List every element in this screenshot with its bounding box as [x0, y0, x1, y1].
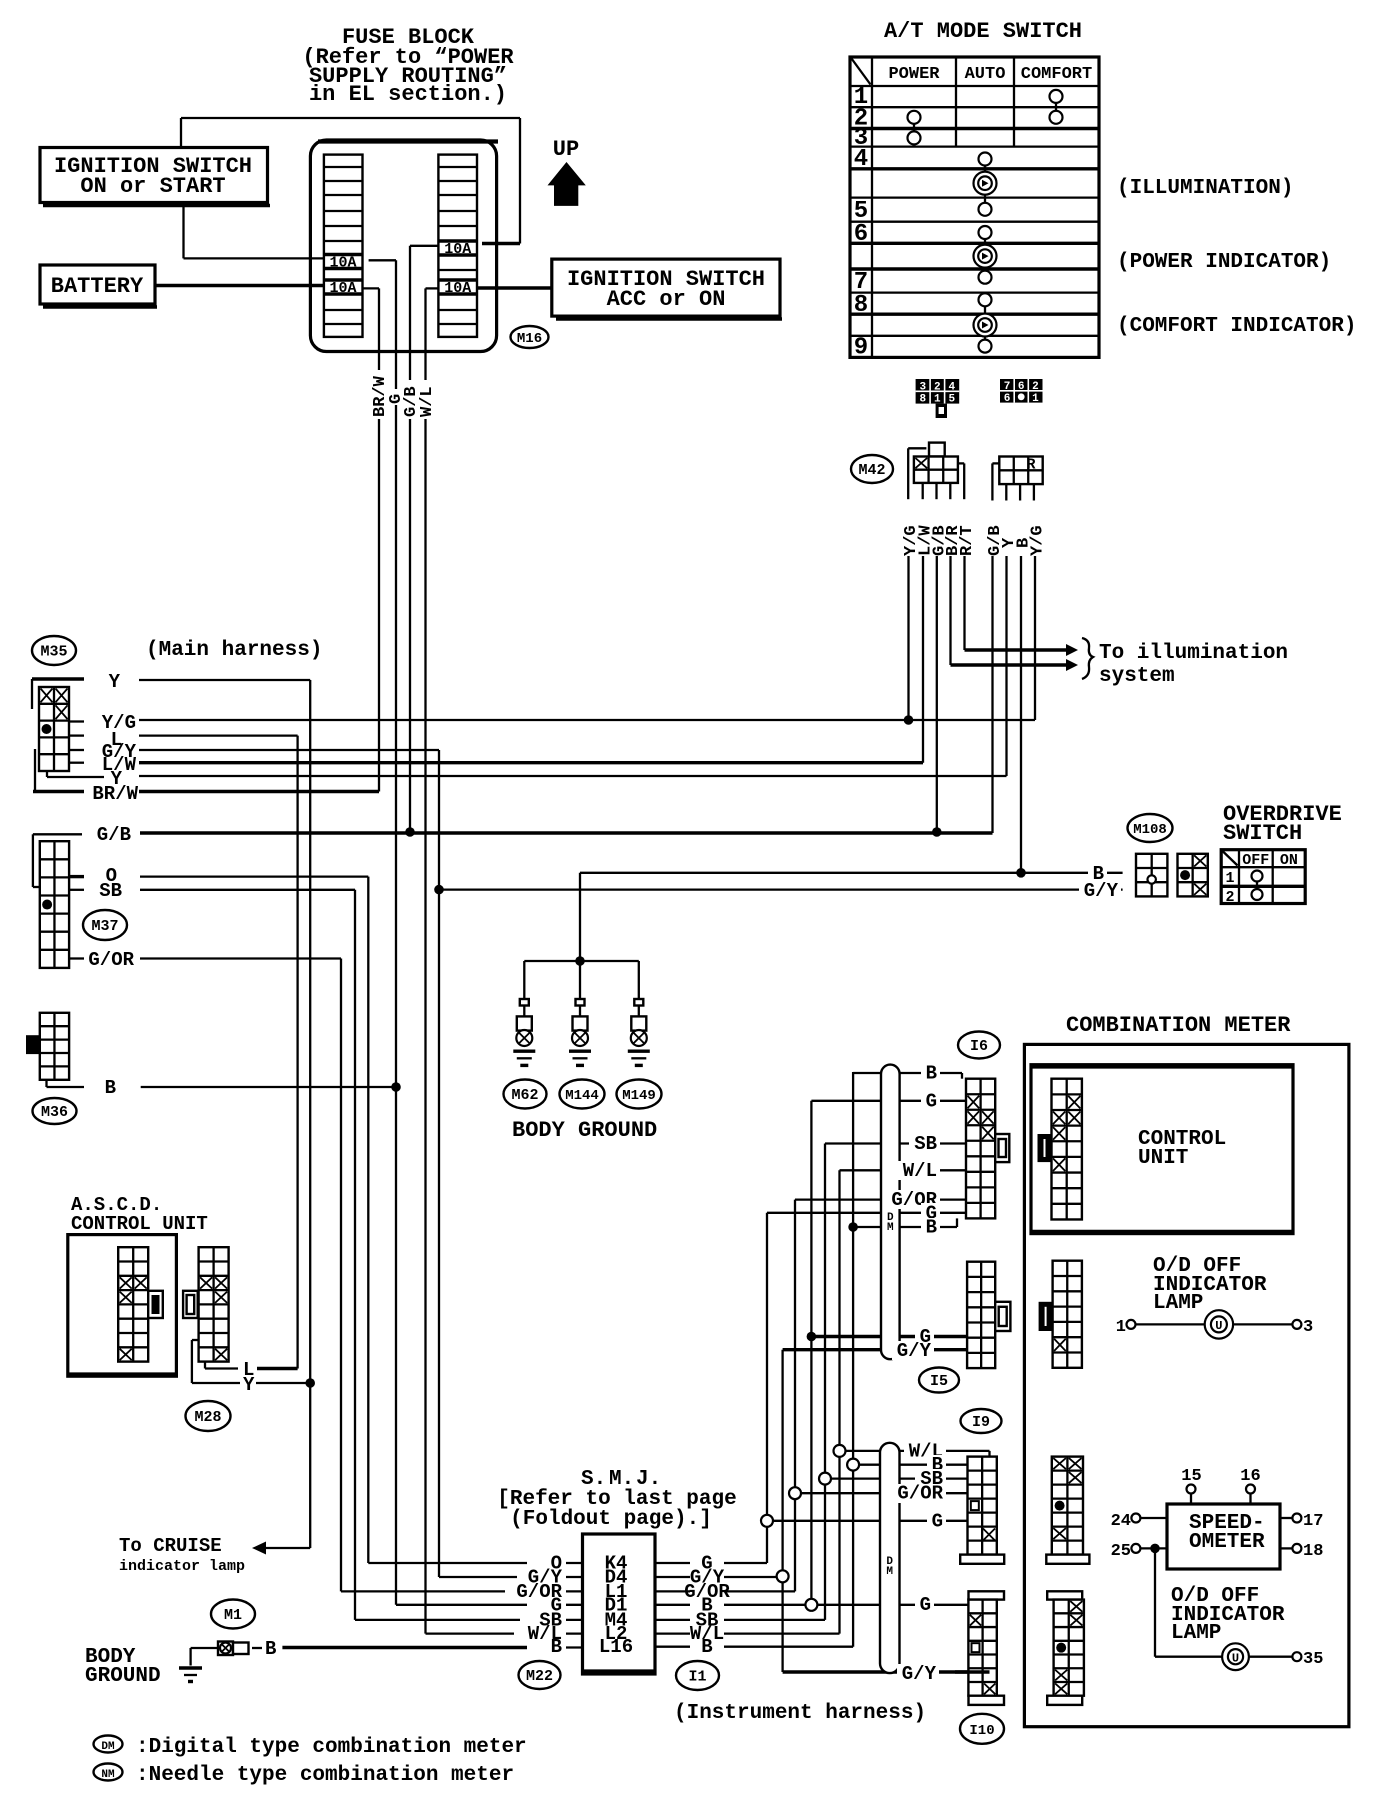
svg-text:M: M	[886, 1566, 893, 1578]
svg-text:(COMFORT INDICATOR): (COMFORT INDICATOR)	[1117, 315, 1356, 338]
connector M42 grid A	[908, 448, 964, 499]
M108 connector grid A	[1136, 854, 1167, 897]
svg-text:4: 4	[948, 381, 955, 393]
S.M.J. terminal labels	[599, 1553, 633, 1659]
wire G/Y: M35 row down to M108 and SMJ D4	[139, 750, 444, 1577]
wire B: I9 row	[853, 1463, 967, 1465]
wire O: M37 to SMJ K4	[140, 877, 368, 1563]
wire G: fuse down to SMJ D1 row	[369, 260, 396, 1605]
wire B/R: A/T connector to illumination	[951, 556, 1067, 665]
table row numbers	[854, 84, 868, 362]
speedometer box	[1167, 1504, 1280, 1569]
svg-text:G/Y: G/Y	[897, 1340, 932, 1362]
BATTERY box	[40, 265, 157, 307]
M1 body ground connector	[179, 1642, 249, 1682]
wire G: I6 row	[811, 1100, 966, 1102]
svg-text:1: 1	[1225, 870, 1234, 887]
(Main harness) label	[146, 639, 322, 662]
svg-text:To illumination: To illumination	[1099, 642, 1288, 665]
svg-text:M108: M108	[1133, 822, 1167, 838]
speedometer pins 15 16	[1181, 1467, 1260, 1504]
svg-text:3: 3	[919, 381, 926, 393]
To illumination system label	[1099, 642, 1288, 688]
svg-text:OMETER: OMETER	[1189, 1531, 1265, 1554]
A/T mode switch table	[850, 57, 1099, 357]
wire L/W: M35 row to A/T connector	[139, 556, 923, 763]
wire SB: M37 to SMJ M4	[140, 890, 355, 1620]
wire: battery feed to left fuse 10A	[155, 284, 324, 287]
svg-text:B: B	[265, 1638, 276, 1660]
svg-text:2: 2	[1032, 381, 1039, 393]
svg-text:6: 6	[854, 221, 868, 248]
wire L: M35 row to ASCD M28	[139, 736, 298, 1369]
svg-text:2: 2	[934, 381, 941, 393]
fuse block right column	[438, 155, 477, 337]
svg-text:(Instrument harness): (Instrument harness)	[674, 1702, 926, 1725]
svg-text:7: 7	[1004, 381, 1011, 393]
wire BR/W: battery fuse down to M35 BR/W row	[363, 288, 380, 791]
connector M37	[33, 834, 84, 968]
wire G/Y vertical to I5 and I10	[783, 1350, 990, 1672]
wire: right fuse 10A to ignition switch ACC box	[475, 286, 552, 289]
connector M35 oval	[32, 636, 76, 665]
svg-text:UNIT: UNIT	[1138, 1147, 1188, 1170]
svg-text:G/OR: G/OR	[897, 1483, 943, 1505]
svg-text::Digital type combination mete: :Digital type combination meter	[136, 1736, 527, 1759]
legend NM	[94, 1764, 515, 1788]
connector M42 oval	[851, 455, 893, 483]
A/T switch pigtail connector right (black)	[1000, 379, 1043, 405]
S.M.J. caption	[497, 1468, 736, 1531]
wire: SMJ row D1 right (B) to I10 G row	[655, 1101, 968, 1605]
connector M37 oval	[83, 910, 127, 940]
svg-text:4: 4	[854, 146, 868, 173]
svg-text:GROUND: GROUND	[85, 1665, 161, 1688]
svg-text:8: 8	[919, 394, 926, 406]
svg-text:M16: M16	[517, 331, 542, 347]
svg-text:(POWER INDICATOR): (POWER INDICATOR)	[1117, 251, 1331, 274]
A/T switch pigtail connector left (black)	[916, 379, 960, 418]
svg-text:I9: I9	[972, 1414, 990, 1431]
combination meter box	[1024, 1044, 1349, 1726]
wire B: I6 top row	[853, 1073, 962, 1079]
svg-text:6: 6	[1004, 393, 1011, 405]
wire G/OR: M37 to SMJ L1	[140, 959, 341, 1592]
wire BR/W row: M35 bottom row	[139, 790, 379, 793]
I6 wire labels	[886, 1063, 940, 1239]
FUSE BLOCK caption	[302, 25, 514, 107]
CM connector at I10	[1047, 1591, 1084, 1705]
A.S.C.D. control unit box	[68, 1235, 178, 1377]
connector M36 oval	[33, 1098, 77, 1124]
junction circle G/OR	[789, 1487, 801, 1499]
svg-text:LAMP: LAMP	[1171, 1622, 1221, 1645]
S.M.J. right wire labels	[684, 1553, 730, 1659]
ground oval M62	[504, 1080, 547, 1109]
wire B: I6 bottom row	[853, 1218, 957, 1227]
M28 wire labels L and Y	[243, 1359, 255, 1396]
wire B: body ground bus to M108	[580, 556, 1123, 961]
M108 connector grid B	[1178, 854, 1208, 897]
connector M42 grid B	[992, 457, 1042, 501]
wire: M28 L to L vertical	[205, 1362, 298, 1369]
wire G/B: fuse down to G/B row	[410, 246, 438, 832]
fuse 10A labels	[329, 241, 471, 297]
combination meter control-unit connector	[1038, 1079, 1082, 1220]
B and G/Y labels at M108	[1079, 863, 1121, 902]
wire G/OR: I6 row	[795, 1198, 966, 1200]
svg-text:POWER: POWER	[888, 65, 940, 84]
svg-text:17: 17	[1303, 1512, 1323, 1531]
COMBINATION METER title	[1066, 1013, 1291, 1038]
svg-text:M28: M28	[194, 1409, 221, 1426]
label (POWER INDICATOR)	[1117, 251, 1331, 274]
svg-text:indicator lamp: indicator lamp	[119, 1558, 245, 1575]
wire: SMJ row L1 left (G/OR)	[341, 1590, 583, 1592]
connector I5	[967, 1262, 1010, 1368]
svg-text:10A: 10A	[444, 280, 471, 297]
connector I9 oval	[961, 1409, 1002, 1433]
svg-text:M42: M42	[858, 462, 885, 479]
O/D OFF indicator lamp (upper)	[1116, 1310, 1313, 1338]
M42 keying box	[929, 443, 945, 468]
svg-text::Needle type combination meter: :Needle type combination meter	[136, 1764, 514, 1787]
svg-text:5: 5	[948, 394, 955, 406]
svg-text:G: G	[932, 1510, 943, 1532]
svg-text:OFF: OFF	[1242, 852, 1269, 869]
svg-text:M1: M1	[224, 1607, 242, 1624]
speedometer pin 18	[1280, 1542, 1323, 1561]
speedometer pin 25 and lamp feed	[1111, 1542, 1222, 1657]
svg-text:G/Y: G/Y	[1084, 880, 1119, 902]
body ground M62	[513, 999, 535, 1065]
wire: SMJ row L2 right (W/L) to I6/I9	[655, 1170, 990, 1633]
wire labels BR/W G G/B W/L below fuse block	[371, 370, 437, 419]
svg-text:UP: UP	[553, 137, 579, 162]
svg-text:in EL section.): in EL section.)	[309, 82, 507, 107]
svg-text:3: 3	[1303, 1318, 1313, 1337]
svg-text:G/OR: G/OR	[88, 949, 134, 971]
wire B: M36 to G vertical junction	[141, 1082, 401, 1092]
wire W/L: fuse down to SMJ L2 row	[426, 288, 439, 1633]
svg-text:B: B	[926, 1063, 937, 1085]
svg-text:Y: Y	[109, 671, 121, 693]
connector I6	[966, 1079, 1009, 1219]
wire G: I6 lower row	[767, 1212, 966, 1214]
svg-text:ACC or ON: ACC or ON	[607, 287, 726, 312]
wire B: M1 body ground to SMJ L16	[252, 1646, 583, 1649]
junction circle B	[847, 1459, 859, 1471]
svg-text:M144: M144	[565, 1088, 599, 1104]
O/D OFF indicator lamp (lower)	[1222, 1643, 1323, 1670]
svg-text:SB: SB	[914, 1133, 937, 1155]
label (COMFORT INDICATOR)	[1117, 315, 1356, 338]
wire G/Y overlay into I10	[955, 1670, 990, 1673]
svg-text:R/T: R/T	[958, 525, 977, 556]
svg-text:I6: I6	[970, 1038, 988, 1055]
svg-text:25: 25	[1111, 1542, 1131, 1561]
svg-text:M62: M62	[511, 1087, 538, 1104]
svg-text:35: 35	[1303, 1650, 1323, 1669]
svg-text:B: B	[701, 1636, 712, 1658]
BODY GROUND label (M1)	[85, 1646, 161, 1688]
svg-text:10A: 10A	[329, 280, 356, 297]
wire: SMJ row M4 left (SB)	[355, 1619, 583, 1621]
wire: ignition switch ON/START top feed to fuse block	[181, 118, 520, 244]
svg-text:system: system	[1099, 665, 1175, 688]
connector M28 grid	[183, 1247, 229, 1361]
wire: SMJ row L2 left (W/L)	[426, 1632, 583, 1634]
connector I9	[960, 1457, 1004, 1564]
wire: SMJ row M4 right (SB) to I6/I9	[655, 1144, 968, 1620]
svg-text:9: 9	[854, 335, 868, 362]
svg-text:1: 1	[1032, 393, 1039, 405]
wire G/Y: I5 row	[783, 1348, 968, 1351]
svg-text:I10: I10	[969, 1723, 994, 1739]
svg-text:M36: M36	[41, 1104, 68, 1121]
ASCD connector (in box)	[118, 1247, 163, 1361]
wire: ignition switch ON/START to left fuse 10A	[184, 203, 325, 259]
wire W/L: I6 row	[840, 1169, 967, 1171]
A.S.C.D. CONTROL UNIT label	[71, 1194, 208, 1235]
svg-text:CONTROL UNIT: CONTROL UNIT	[71, 1213, 208, 1235]
svg-text:8: 8	[854, 292, 868, 319]
svg-text:Y: Y	[243, 1374, 255, 1396]
connector M28 oval	[186, 1401, 231, 1431]
instrument harness capsule lower	[880, 1443, 900, 1673]
wire: SMJ row K4 right (G) to I9 via junction circle	[655, 1213, 968, 1563]
svg-text:R: R	[1026, 457, 1035, 474]
svg-text:16: 16	[1240, 1467, 1260, 1486]
svg-text:10A: 10A	[329, 255, 356, 272]
svg-text:W/L: W/L	[903, 1160, 937, 1182]
connector M108 oval	[1128, 814, 1173, 842]
OVERDRIVE SWITCH label	[1223, 802, 1342, 846]
wire Y: M35 second row to A/T connector	[139, 556, 1007, 776]
wire Y/G: M35 row across to A/T mode switch	[139, 556, 1035, 725]
wire: M28 Y to Y vertical	[192, 1340, 310, 1383]
svg-text:B: B	[926, 1217, 937, 1239]
junction circle G/Y	[777, 1570, 789, 1582]
svg-text:I1: I1	[688, 1669, 706, 1686]
svg-text:G: G	[920, 1594, 931, 1616]
O/D OFF INDICATOR LAMP label (upper)	[1153, 1255, 1267, 1315]
wire: SMJ row D1 left (G)	[396, 1604, 583, 1606]
connector M22 oval	[519, 1661, 561, 1689]
connector I1 oval	[676, 1661, 719, 1690]
switch contacts AUTO column with lamps	[974, 153, 997, 353]
speedometer pin 24	[1111, 1512, 1167, 1531]
IGNITION SWITCH ON or START box	[40, 148, 270, 206]
wire: SMJ row D4 left (G/Y)	[439, 1576, 583, 1578]
wire: SMJ row L1 right (G/OR) to I6/I9	[655, 1200, 968, 1592]
body ground M149	[628, 999, 650, 1065]
svg-text:1: 1	[1116, 1318, 1126, 1337]
I5 wire labels	[892, 1326, 934, 1362]
svg-text:BODY GROUND: BODY GROUND	[512, 1118, 657, 1143]
switch contacts POWER column	[908, 111, 921, 145]
S.M.J. left wire labels	[516, 1553, 562, 1659]
wire: SMJ row L16 right (B) to I6/I9	[655, 1072, 968, 1647]
connector I6 oval	[958, 1032, 1000, 1059]
I9 wire labels	[892, 1440, 946, 1532]
wire Y: M35 Y row to CRUISE lamp line	[139, 680, 315, 1548]
svg-text:SWITCH: SWITCH	[1223, 821, 1302, 846]
junction circle G (I10)	[805, 1599, 817, 1611]
I10 wire labels	[897, 1594, 939, 1685]
CM connector at I9	[1046, 1457, 1089, 1564]
BODY GROUND label	[512, 1118, 657, 1143]
overdrive switch table	[1221, 850, 1305, 906]
(Instrument harness) label	[674, 1702, 926, 1725]
svg-text:BR/W: BR/W	[92, 783, 138, 805]
svg-text:SB: SB	[99, 880, 122, 902]
svg-text:10A: 10A	[444, 241, 471, 258]
svg-text:24: 24	[1111, 1512, 1131, 1531]
connector I5 oval	[919, 1368, 959, 1393]
svg-text:G: G	[926, 1090, 937, 1112]
control unit box	[1031, 1065, 1293, 1234]
svg-text:L16: L16	[599, 1636, 633, 1658]
svg-text:M37: M37	[91, 918, 118, 935]
svg-text:B: B	[551, 1636, 562, 1658]
junction circle W/L	[834, 1445, 846, 1457]
wire SB: I6 row	[825, 1142, 966, 1144]
wire: SMJ row K4 left (O)	[368, 1562, 582, 1564]
fuse block shell M16	[310, 140, 498, 352]
svg-text:U: U	[1215, 1319, 1222, 1333]
label (ILLUMINATION)	[1117, 177, 1293, 200]
wire R/T: A/T connector to illumination	[965, 556, 1067, 650]
table headers POWER AUTO COMFORT	[888, 65, 1092, 84]
svg-text:ON or START: ON or START	[80, 174, 225, 199]
svg-text:AUTO: AUTO	[965, 65, 1006, 84]
connector I10 oval	[960, 1714, 1004, 1744]
body ground M144	[569, 999, 591, 1065]
svg-text:(ILLUMINATION): (ILLUMINATION)	[1117, 177, 1293, 200]
svg-text:18: 18	[1303, 1542, 1323, 1561]
switch contacts COMFORT column	[1050, 90, 1063, 124]
svg-text:M35: M35	[40, 644, 67, 661]
svg-text:COMBINATION METER: COMBINATION METER	[1066, 1013, 1291, 1038]
B label at M1	[265, 1638, 276, 1660]
svg-text:COMFORT: COMFORT	[1021, 65, 1092, 84]
A/T MODE SWITCH title	[884, 19, 1082, 44]
svg-text:ON: ON	[1280, 852, 1298, 869]
S.M.J. box	[583, 1534, 657, 1674]
svg-text:G/B: G/B	[97, 824, 131, 846]
svg-text:U: U	[1232, 1652, 1239, 1666]
svg-text:M22: M22	[526, 1668, 553, 1685]
fuse block left column	[324, 155, 363, 337]
svg-text:G/Y: G/Y	[902, 1663, 937, 1685]
svg-text:15: 15	[1181, 1467, 1201, 1486]
IGNITION SWITCH ACC or ON box	[552, 259, 782, 319]
connector I10	[968, 1591, 1004, 1705]
svg-text:2: 2	[1225, 889, 1234, 906]
wire G/B row: M37 to A/T connectors	[140, 556, 993, 837]
svg-text:A/T MODE SWITCH: A/T MODE SWITCH	[884, 19, 1082, 44]
speedometer pin 17	[1280, 1512, 1323, 1531]
instrument harness capsule upper	[881, 1065, 900, 1360]
ground oval M149	[617, 1080, 662, 1109]
svg-text:B: B	[105, 1077, 116, 1099]
svg-text:M149: M149	[622, 1088, 656, 1104]
wire G/Y: to M108	[439, 888, 1123, 890]
UP arrow	[548, 137, 586, 206]
svg-text:(Foldout page).]: (Foldout page).]	[510, 1508, 712, 1531]
svg-text:BATTERY: BATTERY	[51, 274, 144, 299]
To CRUISE indicator lamp label and arrow	[119, 1535, 266, 1575]
junction circle G	[761, 1515, 773, 1527]
svg-text:DM: DM	[101, 1741, 115, 1753]
ground oval M144	[560, 1080, 605, 1109]
M35/M37/M36 wire labels	[88, 671, 138, 1099]
svg-text:I5: I5	[930, 1373, 948, 1390]
legend DM	[94, 1736, 527, 1760]
wire G: I5 row	[811, 1335, 967, 1338]
svg-text:W/L: W/L	[418, 386, 437, 417]
connector M16 oval	[511, 326, 549, 348]
connector M36	[26, 1013, 84, 1087]
junction circle SB	[819, 1473, 831, 1485]
svg-text:LAMP: LAMP	[1153, 1292, 1203, 1315]
arrows to illumination system	[1066, 638, 1093, 679]
A/T harness wire labels (rotated)	[902, 525, 1048, 556]
O/D OFF INDICATOR LAMP label (lower)	[1171, 1585, 1285, 1645]
svg-text:6: 6	[1018, 381, 1025, 393]
CM connector at I5	[1039, 1261, 1082, 1368]
connector M35	[32, 679, 104, 792]
wire: body ground split to three grounds	[524, 956, 639, 999]
svg-text:B: B	[1015, 538, 1034, 548]
svg-text:(Main harness): (Main harness)	[146, 639, 322, 662]
svg-text:M: M	[887, 1222, 894, 1234]
connector M1 oval	[211, 1600, 255, 1629]
svg-text:To CRUISE: To CRUISE	[119, 1535, 222, 1557]
wire: SMJ row D4 right (G/Y)	[655, 1576, 783, 1578]
svg-text:NM: NM	[101, 1769, 115, 1781]
